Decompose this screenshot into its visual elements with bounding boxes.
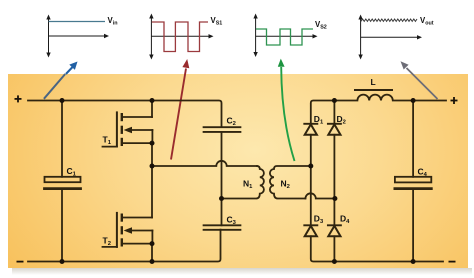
- wire C2 to C3 vertical: [221, 132, 223, 225]
- wire midpoint vertical: [151, 143, 153, 217]
- capacitor C2: [204, 127, 241, 132]
- wire N2 bottom crossover bump to D2 branch: [305, 193, 335, 198]
- minus input terminal: [17, 261, 24, 263]
- waveform 1 axes: [46, 15, 109, 58]
- plus output terminal: [451, 97, 458, 104]
- transistor T1: [103, 112, 153, 146]
- plus input terminal: [15, 95, 22, 102]
- wire D1 to D3 branch: [310, 135, 312, 226]
- capacitor C4: [395, 101, 431, 262]
- transistor T2: [103, 213, 153, 247]
- minus output terminal: [449, 261, 456, 263]
- diode D2: [328, 124, 341, 135]
- transformer secondary N2: [270, 166, 311, 199]
- green arrow to waveform 3: [278, 59, 295, 161]
- wire top rail secondary with inductor L coil: [311, 95, 446, 124]
- waveform 3 axes: [253, 14, 317, 58]
- gray arrow to waveform 4: [401, 61, 438, 99]
- diode D1: [304, 124, 317, 135]
- wire bottom rail secondary: [311, 236, 443, 261]
- wire T1 arrow to source: [151, 130, 153, 143]
- diode D4: [328, 225, 341, 236]
- waveform 2 trace VS1 square wave: [152, 22, 208, 52]
- capacitor C3: [204, 225, 241, 230]
- orange panel: [8, 74, 468, 268]
- wire D4 to bottom rail: [333, 236, 335, 261]
- svg-text:L: L: [371, 77, 376, 87]
- waveform 3 trace VS2 square wave: [256, 29, 313, 45]
- dark red arrow to waveform 2: [171, 59, 189, 160]
- wire bottom rail primary: [28, 230, 221, 262]
- wire D2 to D4 branch: [333, 101, 335, 124]
- wire midpoint to N1 with crossover bump: [152, 161, 257, 166]
- capacitor C1: [45, 101, 81, 262]
- waveform 1 trace Vin: [49, 21, 106, 23]
- transformer primary N1: [222, 166, 264, 199]
- wire T2 source to bottom rail: [151, 244, 153, 262]
- blue arrow to waveform 1: [44, 62, 78, 99]
- waveform 4 trace Vout ripple: [361, 19, 417, 21]
- inductor L core bar: [355, 89, 392, 91]
- wire top rail primary: [28, 101, 222, 128]
- diode D3: [304, 225, 317, 236]
- wire T1 drain to rail: [151, 101, 153, 118]
- wire T2 arrow to source: [151, 231, 153, 244]
- waveform 4 axes: [358, 15, 422, 60]
- panel shadow: [12, 268, 472, 275]
- waveform 2 axes: [149, 14, 213, 60]
